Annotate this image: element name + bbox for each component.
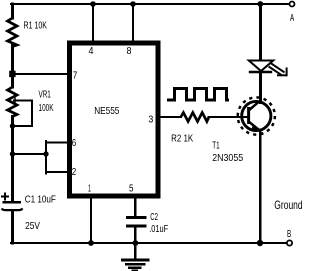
svg-text:100K: 100K bbox=[39, 102, 54, 114]
svg-text:C2: C2 bbox=[150, 211, 158, 223]
svg-text:R2 1K: R2 1K bbox=[171, 132, 193, 144]
svg-text:3: 3 bbox=[148, 114, 153, 125]
svg-text:7: 7 bbox=[73, 70, 78, 81]
svg-text:6: 6 bbox=[72, 138, 77, 149]
svg-text:T1: T1 bbox=[212, 140, 219, 152]
svg-text:C1 10uF: C1 10uF bbox=[25, 194, 56, 206]
svg-text:A: A bbox=[290, 12, 294, 24]
svg-text:5: 5 bbox=[129, 183, 134, 194]
svg-text:.01uF: .01uF bbox=[149, 223, 168, 235]
svg-text:2: 2 bbox=[72, 167, 77, 178]
svg-text:1: 1 bbox=[88, 183, 91, 194]
svg-text:4: 4 bbox=[89, 46, 94, 57]
svg-text:Ground: Ground bbox=[274, 198, 302, 212]
svg-text:VR1: VR1 bbox=[39, 88, 51, 100]
svg-text:B: B bbox=[287, 228, 291, 240]
svg-text:NE555: NE555 bbox=[94, 105, 119, 117]
svg-text:R1 10K: R1 10K bbox=[24, 20, 48, 32]
svg-text:8: 8 bbox=[127, 46, 132, 57]
svg-text:25V: 25V bbox=[25, 220, 40, 232]
svg-text:2N3055: 2N3055 bbox=[212, 152, 243, 164]
